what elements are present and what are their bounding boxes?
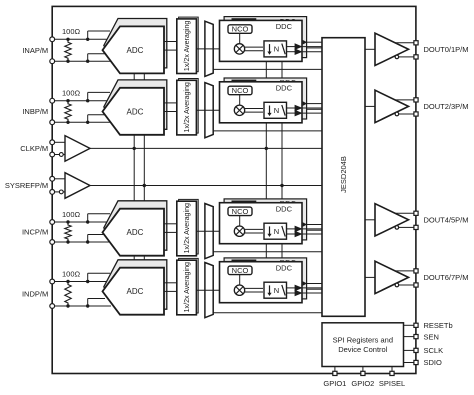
svg-text:ADC: ADC [127, 46, 144, 55]
svg-text:DOUT0/1P/M: DOUT0/1P/M [424, 45, 469, 54]
svg-text:INDP/M: INDP/M [22, 289, 48, 298]
svg-text:SDIO: SDIO [424, 358, 443, 367]
svg-text:INCP/M: INCP/M [22, 228, 48, 237]
svg-text:1x/2x Averaging: 1x/2x Averaging [183, 21, 191, 71]
svg-text:1x/2x Averaging: 1x/2x Averaging [183, 82, 191, 132]
svg-text:N: N [274, 286, 279, 295]
svg-text:N: N [274, 45, 279, 54]
svg-text:NCO: NCO [232, 266, 249, 275]
svg-text:1x/2x Averaging: 1x/2x Averaging [183, 262, 191, 312]
svg-text:ADC: ADC [127, 107, 144, 116]
svg-text:INAP/M: INAP/M [22, 46, 48, 55]
svg-text:SCLK: SCLK [424, 346, 444, 355]
svg-text:1x/2x Averaging: 1x/2x Averaging [183, 203, 191, 253]
svg-text:100Ω: 100Ω [62, 269, 81, 278]
svg-text:DOUT6/7P/M: DOUT6/7P/M [424, 273, 469, 282]
svg-text:100Ω: 100Ω [62, 27, 81, 36]
svg-text:DDC: DDC [276, 22, 293, 31]
svg-text:N: N [274, 106, 279, 115]
svg-text:ADC: ADC [127, 287, 144, 296]
svg-text:N: N [274, 227, 279, 236]
svg-text:RESETb: RESETb [424, 321, 453, 330]
svg-text:ADC: ADC [127, 228, 144, 237]
svg-text:SPI Registers and: SPI Registers and [333, 335, 393, 344]
svg-text:INBP/M: INBP/M [22, 107, 48, 116]
svg-text:DDC: DDC [276, 84, 293, 93]
svg-text:NCO: NCO [232, 25, 249, 34]
svg-text:NCO: NCO [232, 207, 249, 216]
svg-text:SYSREFP/M: SYSREFP/M [5, 181, 48, 190]
svg-text:GPIO1: GPIO1 [323, 379, 346, 388]
svg-text:CLKP/M: CLKP/M [20, 144, 48, 153]
svg-text:DDC: DDC [276, 205, 293, 214]
svg-text:DOUT4/5P/M: DOUT4/5P/M [424, 215, 469, 224]
svg-text:100Ω: 100Ω [62, 210, 81, 219]
svg-text:SEN: SEN [424, 332, 439, 341]
svg-text:GPIO2: GPIO2 [351, 379, 374, 388]
svg-text:DDC: DDC [276, 264, 293, 273]
svg-text:DOUT2/3P/M: DOUT2/3P/M [424, 102, 469, 111]
svg-text:JESD204B: JESD204B [339, 156, 348, 193]
svg-text:Device Control: Device Control [338, 345, 388, 354]
svg-text:NCO: NCO [232, 86, 249, 95]
svg-text:SPISEL: SPISEL [379, 379, 405, 388]
svg-text:100Ω: 100Ω [62, 89, 81, 98]
